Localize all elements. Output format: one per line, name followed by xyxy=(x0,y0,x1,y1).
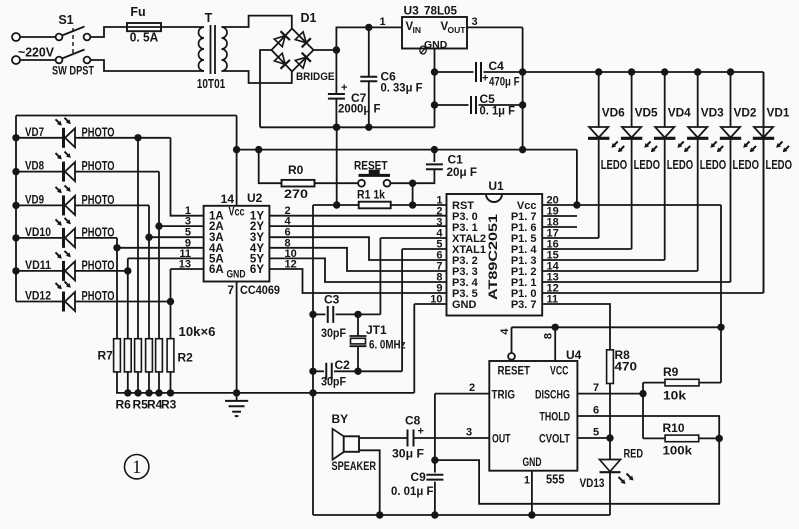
svg-text:IN: IN xyxy=(413,25,422,35)
wire gnd mid drop xyxy=(312,205,314,393)
switch S1 pole 2 xyxy=(56,57,63,64)
led VD4 xyxy=(664,72,666,127)
wire C8 to speaker xyxy=(359,437,408,439)
svg-text:LEDO: LEDO xyxy=(733,158,760,172)
resistor R7 body xyxy=(114,339,121,372)
wire bridge plus xyxy=(314,49,337,51)
wire C5 right xyxy=(479,104,523,106)
svg-text:470: 470 xyxy=(615,360,638,374)
svg-text:GND: GND xyxy=(227,269,246,281)
svg-text:30pF: 30pF xyxy=(321,326,346,340)
wire CVOLT xyxy=(577,437,610,439)
node LED rail VD6 xyxy=(595,68,602,75)
wire XTAL1 pin5 xyxy=(402,248,446,250)
wire XTAL1 drop xyxy=(401,249,403,371)
node cvolt vd13 xyxy=(606,434,613,441)
wire bottom gnd rail xyxy=(313,514,610,516)
wire to Vin rail xyxy=(336,27,402,50)
node VD7-R5 xyxy=(134,134,141,141)
svg-text:30μ F: 30μ F xyxy=(392,447,424,461)
svg-text:LEDO: LEDO xyxy=(634,158,661,172)
svg-text:R0: R0 xyxy=(288,163,304,177)
svg-text:2000μ F: 2000μ F xyxy=(338,102,381,116)
svg-text:7: 7 xyxy=(227,283,234,297)
switch S1 pole 1 xyxy=(56,34,63,41)
svg-text:6. 0MHz: 6. 0MHz xyxy=(369,338,406,352)
node trig-c9 xyxy=(431,456,438,463)
svg-text:GND: GND xyxy=(424,39,448,51)
wire VD12 cathode xyxy=(78,301,171,303)
wire VD8 drop xyxy=(158,172,160,339)
svg-text:VD11: VD11 xyxy=(25,258,51,272)
wire switch to fuse xyxy=(91,27,128,37)
wire 1Y to P3.0 xyxy=(269,215,446,217)
svg-text:0. 33μ F: 0. 33μ F xyxy=(381,81,423,95)
svg-text:1: 1 xyxy=(132,457,142,478)
svg-text:3: 3 xyxy=(471,16,477,28)
svg-text:LEDO: LEDO xyxy=(700,158,727,172)
node u4 vcc tap xyxy=(552,324,559,331)
svg-text:6Y: 6Y xyxy=(250,264,264,276)
bridge diode lower-right xyxy=(295,57,306,68)
led VD5 xyxy=(631,72,633,127)
wire button right xyxy=(390,182,412,184)
wire VD9 drop xyxy=(148,205,150,338)
svg-text:4: 4 xyxy=(499,328,511,335)
svg-text:U4: U4 xyxy=(566,348,582,362)
wire bottom gnd drop xyxy=(312,393,314,515)
capacitor C5 xyxy=(470,96,472,114)
node C6 top xyxy=(365,24,372,31)
wire 4Y to P3.3 xyxy=(269,248,446,271)
resistor R6 body xyxy=(124,339,131,372)
node dischg xyxy=(639,390,646,397)
wire VD11 cathode xyxy=(78,270,128,272)
capacitor C7 xyxy=(335,50,337,94)
wire GND pin10 xyxy=(414,303,446,305)
svg-text:2: 2 xyxy=(469,382,475,394)
svg-text:R10: R10 xyxy=(663,421,685,435)
svg-text:GND: GND xyxy=(452,299,477,311)
wire 5A row xyxy=(128,257,204,259)
wire rail corner VD1 xyxy=(763,72,765,293)
led VD6 xyxy=(598,72,600,127)
svg-text:10k: 10k xyxy=(663,389,686,403)
wire pin12 to VD1 xyxy=(542,292,763,294)
speaker BY xyxy=(333,429,344,460)
wire +5V rail xyxy=(237,149,577,151)
svg-text:3: 3 xyxy=(466,427,472,439)
svg-text:OUT: OUT xyxy=(448,25,467,35)
svg-text:10T01: 10T01 xyxy=(197,77,226,91)
svg-text:BRIDGE: BRIDGE xyxy=(296,71,335,83)
node C4 right xyxy=(519,68,526,75)
reset button xyxy=(358,180,365,187)
node bridge plus xyxy=(333,46,340,53)
node rail R6 xyxy=(124,389,131,396)
svg-text:VD8: VD8 xyxy=(25,159,44,173)
resistor R0 xyxy=(259,150,282,184)
svg-text:R5: R5 xyxy=(133,398,149,412)
resistor R4 body xyxy=(146,339,153,372)
wire C4 left xyxy=(435,71,474,73)
wire 6A row xyxy=(171,268,204,270)
svg-text:LEDO: LEDO xyxy=(766,158,793,172)
wire XTAL2 pin4 xyxy=(380,237,446,239)
wire P3.7 xyxy=(542,304,610,350)
svg-text:8: 8 xyxy=(543,333,555,339)
node rail U2 gnd xyxy=(233,389,240,396)
svg-text:6: 6 xyxy=(593,405,599,417)
wire DISCHG xyxy=(577,393,643,395)
svg-text:+: + xyxy=(418,426,424,438)
node rail Vout xyxy=(519,146,526,153)
capacitor C3 xyxy=(313,313,326,315)
svg-text:D1: D1 xyxy=(301,11,317,25)
wire fuse to transformer xyxy=(161,26,204,28)
photodiode VD9 xyxy=(16,204,64,206)
wire OUT xyxy=(414,437,489,439)
wire raw ground rail xyxy=(260,126,435,128)
AC input terminal bottom xyxy=(12,56,20,64)
led VD1 xyxy=(763,72,765,127)
bridge diode lower-left xyxy=(274,53,285,64)
wire 4A row xyxy=(117,247,204,249)
node anode bus VD11 xyxy=(12,267,19,274)
photodiode VD11 xyxy=(16,270,64,272)
wire secondary bottom to bridge xyxy=(222,71,292,83)
node VD11 end xyxy=(124,267,131,274)
inverter U2 box xyxy=(204,206,270,282)
wire Vout down xyxy=(522,27,524,149)
svg-text:TRIG: TRIG xyxy=(492,390,516,402)
node rail C1 xyxy=(431,146,438,153)
node anode bus VD8 xyxy=(12,168,19,175)
wire VD9 cathode xyxy=(78,204,149,206)
crystal JT1 xyxy=(357,314,359,336)
wire pin14 to VD3 xyxy=(542,270,698,272)
svg-text:U1: U1 xyxy=(488,179,504,193)
svg-text:20μ F: 20μ F xyxy=(447,165,478,179)
node rail R5 xyxy=(134,389,141,396)
resistor R10 xyxy=(643,437,665,439)
node C7 bottom xyxy=(333,124,340,131)
wire pin19 stub xyxy=(542,215,577,217)
node LED rail VD5 xyxy=(628,68,635,75)
svg-text:470μ F: 470μ F xyxy=(489,75,520,89)
wire pin20 xyxy=(542,204,721,206)
svg-text:LEDO: LEDO xyxy=(667,158,694,172)
wire +5 LED rail xyxy=(484,71,764,73)
svg-text:R7: R7 xyxy=(98,349,114,363)
capacitor C4 xyxy=(475,62,477,82)
wire ground rail xyxy=(116,392,414,394)
wire 6Y to P3.5 xyxy=(269,269,446,293)
svg-text:0. 01μ F: 0. 01μ F xyxy=(391,484,434,498)
svg-text:+: + xyxy=(482,73,488,85)
wire u4 vcc pin xyxy=(554,327,556,361)
wire secondary top to bridge xyxy=(222,16,292,29)
photodiode VD10 xyxy=(16,237,64,239)
wire 2Y to P3.1 xyxy=(269,225,446,227)
svg-text:6A: 6A xyxy=(209,264,224,276)
svg-text:LEDO: LEDO xyxy=(601,158,628,172)
svg-text:S1: S1 xyxy=(58,13,73,27)
svg-text:C3: C3 xyxy=(324,293,340,307)
wire trig-thold link xyxy=(435,438,719,503)
node LED rail VD3 xyxy=(694,68,701,75)
wire rail to pin20 xyxy=(576,150,578,205)
svg-text:1: 1 xyxy=(379,16,385,28)
capacitor C9 xyxy=(434,460,436,473)
svg-text:BY: BY xyxy=(332,412,349,426)
wire 3Y to P3.2 xyxy=(269,237,446,260)
svg-text:VCC: VCC xyxy=(550,366,569,378)
bridge D1 outline xyxy=(272,29,314,72)
svg-text:RED: RED xyxy=(624,447,644,461)
node LED rail VD2 xyxy=(727,68,734,75)
svg-text:U2: U2 xyxy=(247,191,263,205)
svg-text:VD10: VD10 xyxy=(25,225,51,239)
svg-text:T: T xyxy=(205,11,213,25)
transformer T primary xyxy=(199,27,204,71)
wire AC top xyxy=(20,36,56,38)
wire VD10 drop xyxy=(116,238,118,339)
wire VD8 cathode xyxy=(78,171,159,173)
svg-text:SW DPST: SW DPST xyxy=(52,64,95,78)
svg-text:7: 7 xyxy=(593,382,599,394)
node LED rail VD4 xyxy=(661,68,668,75)
node C5 left xyxy=(431,101,438,108)
node anode bus VD7 xyxy=(12,134,19,141)
svg-text:1: 1 xyxy=(524,475,530,487)
bridge diode upper-left xyxy=(274,36,285,47)
wire 3A row xyxy=(149,236,204,238)
fuse Fu xyxy=(127,26,161,28)
node rail R0 xyxy=(255,146,262,153)
node rail mid drop xyxy=(309,389,316,396)
wire Vout xyxy=(467,26,523,28)
wire anode bus xyxy=(15,116,17,302)
wire u4 reset pin xyxy=(511,327,513,353)
svg-text:AT89C2051: AT89C2051 xyxy=(486,214,500,300)
svg-text:Vcc: Vcc xyxy=(229,207,245,219)
svg-text:JT1: JT1 xyxy=(366,323,387,337)
svg-text:555: 555 xyxy=(546,473,565,487)
wire bridge minus down xyxy=(260,50,272,127)
wire C5 left xyxy=(435,104,469,106)
node vcc rail 555 xyxy=(717,324,724,331)
led VD3 xyxy=(697,72,699,127)
wire R9 left drop xyxy=(642,383,644,439)
wire VD7 to 1A xyxy=(171,138,204,216)
AC input terminal top xyxy=(12,33,20,41)
photodiode VD7 xyxy=(16,137,64,139)
svg-text:5: 5 xyxy=(593,427,599,439)
node rail U2vcc xyxy=(233,146,240,153)
node rail R3 xyxy=(155,389,162,396)
svg-text:VD2: VD2 xyxy=(734,106,757,120)
node XTAL node bottom xyxy=(354,368,361,375)
wire VD12 riser xyxy=(170,269,172,339)
svg-text:100k: 100k xyxy=(663,444,693,458)
svg-text:Fu: Fu xyxy=(130,5,145,19)
bridge diode upper-right xyxy=(295,32,306,43)
svg-text:14: 14 xyxy=(221,192,235,206)
node RST xyxy=(409,201,416,208)
wire anode bus top xyxy=(16,115,237,117)
transformer T core xyxy=(210,25,212,74)
wire U4 gnd pin xyxy=(531,471,533,515)
wire switch to transformer bottom xyxy=(91,60,205,71)
wire TRIG xyxy=(435,393,489,395)
svg-text:P3. 7: P3. 7 xyxy=(511,299,537,311)
resistor R5 body xyxy=(135,339,142,372)
svg-text:THOLD: THOLD xyxy=(540,412,571,424)
switch link dashed xyxy=(72,28,74,55)
capacitor C6 xyxy=(368,27,370,76)
node bottom speaker xyxy=(376,511,383,518)
node reset top xyxy=(409,180,416,187)
wire 555 vcc rail xyxy=(512,326,722,328)
svg-text:RESET: RESET xyxy=(498,366,531,378)
svg-text:R1 1k: R1 1k xyxy=(357,190,386,202)
wire 2A row xyxy=(159,225,204,227)
led VD13 xyxy=(609,438,611,460)
node C4 left xyxy=(431,68,438,75)
wire VD7 resistor drop xyxy=(137,138,139,339)
photodiode VD8 xyxy=(16,171,64,173)
node C2 left xyxy=(309,368,316,375)
svg-text:SPEAKER: SPEAKER xyxy=(332,461,377,473)
node C6 bottom xyxy=(365,124,372,131)
svg-text:VD5: VD5 xyxy=(635,106,658,120)
resistor R1 xyxy=(313,204,359,206)
node anode bus VD10 xyxy=(12,234,19,241)
node bottom U4 gnd xyxy=(528,511,535,518)
svg-text:VD13: VD13 xyxy=(580,476,605,490)
wire gnd drop to R1 xyxy=(336,127,338,205)
node R1 left xyxy=(333,201,340,208)
svg-text:C9: C9 xyxy=(411,470,427,484)
svg-text:VD6: VD6 xyxy=(602,106,625,120)
wire VD10 cathode xyxy=(78,237,117,239)
resistor R8 xyxy=(607,350,614,384)
wire XTAL2 drop xyxy=(379,238,381,314)
svg-text:78L05: 78L05 xyxy=(424,4,457,18)
svg-text:30pF: 30pF xyxy=(321,375,346,389)
node C3 left xyxy=(309,311,316,318)
svg-text:~220V: ~220V xyxy=(18,46,55,60)
wire RST pin1 xyxy=(413,204,447,206)
wire pin16 to VD5 xyxy=(542,248,631,250)
capacitor C1 xyxy=(433,150,435,162)
node C5 right xyxy=(519,101,526,108)
svg-text:VD12: VD12 xyxy=(25,289,51,303)
transformer T secondary xyxy=(222,27,228,71)
resistor R9 xyxy=(643,382,665,384)
svg-text:C4: C4 xyxy=(489,59,505,73)
svg-text:0. 5A: 0. 5A xyxy=(130,31,159,45)
svg-text:10k×6: 10k×6 xyxy=(179,325,216,339)
figure mark 1 xyxy=(125,455,149,479)
svg-text:VD7: VD7 xyxy=(25,125,44,139)
svg-text:OUT: OUT xyxy=(492,434,511,446)
wire pin20 down xyxy=(720,205,722,383)
led VD2 xyxy=(730,72,732,127)
svg-text:VD9: VD9 xyxy=(25,192,44,206)
wire U2 gnd drop xyxy=(236,282,238,393)
node bottom C9 xyxy=(431,511,438,518)
svg-text:DISCHG: DISCHG xyxy=(535,390,570,402)
regulator U3 box xyxy=(402,17,467,49)
wire pin15 to VD4 xyxy=(542,259,665,261)
node VD12 end xyxy=(167,298,174,305)
wire reset node down xyxy=(412,183,414,205)
svg-text:+: + xyxy=(341,82,347,94)
timer U4 box xyxy=(489,361,577,471)
wire U1 gnd drop xyxy=(413,304,415,393)
U3 gnd mark xyxy=(420,46,426,54)
svg-text:VD4: VD4 xyxy=(668,106,691,120)
node 2A tap xyxy=(155,222,162,229)
ground symbol xyxy=(236,393,238,401)
node pin20 xyxy=(573,201,580,208)
svg-text:C2: C2 xyxy=(335,358,351,372)
wire pin17 to VD6 xyxy=(542,237,599,239)
svg-text:CVOLT: CVOLT xyxy=(539,434,570,446)
wire AC bottom xyxy=(20,59,56,61)
node gnd drop top xyxy=(333,124,340,131)
svg-text:R9: R9 xyxy=(663,365,679,379)
wire 5Y to P3.4 xyxy=(269,258,446,282)
wire pin13 to VD2 xyxy=(542,281,730,283)
node anode bus VD9 xyxy=(12,202,19,209)
svg-text:CC4069: CC4069 xyxy=(240,283,280,297)
wire pin18 stub xyxy=(542,226,577,228)
svg-text:R3: R3 xyxy=(161,398,177,412)
node 3A tap xyxy=(145,234,152,241)
svg-text:R2: R2 xyxy=(178,351,194,365)
wire VD7 cathode xyxy=(78,137,171,139)
wire U3 gnd down xyxy=(434,49,436,128)
svg-text:U3: U3 xyxy=(404,4,420,18)
wire THOLD xyxy=(577,416,719,438)
wire U2 vcc riser xyxy=(236,116,238,206)
svg-text:270: 270 xyxy=(284,187,308,201)
photodiode VD12 xyxy=(16,301,64,303)
resistor R3 body xyxy=(156,339,163,372)
node XTAL node top xyxy=(354,311,361,318)
svg-text:VD3: VD3 xyxy=(701,106,724,120)
svg-text:R6: R6 xyxy=(116,398,132,412)
wire speaker return xyxy=(359,450,380,515)
capacitor C2 xyxy=(313,370,324,372)
node 4A tap xyxy=(113,244,120,251)
wire VD11 riser xyxy=(127,258,129,338)
node rail R4 xyxy=(145,389,152,396)
svg-text:VD1: VD1 xyxy=(767,106,790,120)
wire TRIG drop xyxy=(434,394,436,461)
node R10 right xyxy=(716,435,723,442)
svg-text:RESET: RESET xyxy=(354,161,388,173)
svg-text:GND: GND xyxy=(523,457,542,469)
mcu U1 box xyxy=(447,194,543,316)
node rail R2 xyxy=(167,389,174,396)
resistor R2 body xyxy=(167,339,174,372)
capacitor C8 xyxy=(407,430,409,447)
